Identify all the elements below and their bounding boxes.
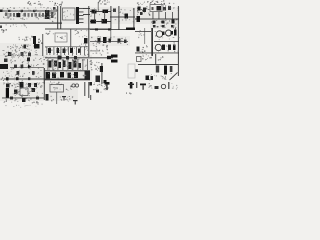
wire rail R13 [45, 57, 113, 58]
capacitor C107 [8, 52, 12, 56]
elec capacitor C121 [74, 72, 78, 78]
mid-right row specks [97, 41, 98, 44]
wire secondary rail mid [83, 14, 90, 15]
capacitor C214 [70, 48, 73, 53]
diode D201 [92, 10, 97, 14]
rail blob 1 [6, 77, 9, 80]
cap row specks [69, 57, 70, 60]
resistor R101 area specks [36, 10, 37, 11]
wire vertical V12 [44, 84, 45, 100]
resistor R210 bar [164, 66, 167, 75]
wire flyback bus [151, 28, 153, 56]
top-right specks [170, 7, 171, 10]
wire rail R14 [45, 70, 90, 71]
wire vertical bus A [88, 6, 89, 57]
wire vertical V at 44 [44, 68, 45, 84]
resistor R213 [151, 76, 154, 80]
resistor R104 [35, 13, 38, 17]
T102 tap arrow 4 [79, 18, 84, 21]
wire rail R15 [45, 79, 90, 80]
ground sym GND1 [62, 96, 66, 97]
resistor R105 [24, 45, 27, 49]
diode D205 [109, 39, 112, 43]
wire drop V110 [109, 29, 112, 40]
fuse F201 cluster [142, 9, 144, 12]
T102 tap arrow 2 [79, 11, 84, 14]
capacitor C116 [63, 61, 66, 68]
label 1 mark [90, 95, 91, 100]
connector J101 circles [72, 84, 75, 87]
transistor Q102 blob [96, 76, 101, 83]
capacitor C103 [24, 13, 27, 17]
plus marks [67, 89, 70, 92]
capacitor C124 [14, 90, 18, 95]
op-amp U101 box [63, 8, 76, 20]
dark mark y72 [32, 71, 35, 75]
wire rect row1 [90, 11, 111, 12]
relay feed wire [152, 12, 155, 19]
inductor L203 [113, 9, 116, 13]
scan haze right bank [150, 19, 178, 29]
bottom right text [151, 85, 152, 88]
bottom far specks [26, 104, 27, 107]
resistor R216 [137, 47, 140, 52]
row specks y72 [7, 70, 8, 73]
node dot below [104, 80, 107, 83]
wire hv rail [135, 19, 179, 20]
bottom row2 specks [21, 96, 23, 97]
capacitor C112 [74, 56, 77, 60]
wire stub y50 [90, 50, 100, 53]
resistor R107 [28, 83, 31, 87]
transformer T103 bar [6, 88, 9, 98]
transformer T101 primary line [57, 6, 58, 29]
relay feed wire 2 [158, 12, 161, 19]
below-rail specks [22, 79, 23, 82]
wire right edge bus [178, 6, 179, 76]
wire top rail [2, 11, 57, 12]
rail bump 3 [33, 10, 36, 12]
T102 tap arrow 3 [79, 14, 84, 17]
connector circle [161, 84, 165, 88]
lower right specks [163, 76, 164, 79]
label right of V11 [162, 55, 163, 58]
relay contact blob [157, 6, 162, 11]
capacitor C127 [46, 94, 49, 101]
node left edge lower [0, 26, 2, 29]
capacitor C204 [162, 25, 165, 28]
capacitor C208 [168, 6, 171, 10]
transistor Q101 bar [33, 36, 36, 44]
capacitor C104 [31, 13, 33, 17]
node left terminal [0, 10, 3, 13]
diode D104 [27, 58, 30, 62]
bridge box D107 [20, 88, 28, 96]
scan haze top band [0, 7, 180, 24]
diode D206 [168, 45, 171, 51]
label F201 text [147, 0, 149, 3]
capacitor C202 [137, 16, 141, 22]
U201 label 1327 [60, 36, 61, 39]
T102 tap arrow 5 [79, 21, 84, 24]
transformer L101 core [16, 13, 20, 17]
wire drop from K101 [55, 92, 58, 104]
hatched box R209 [156, 66, 159, 73]
lower mid specks [36, 54, 37, 55]
IC box U201 [55, 33, 67, 42]
wire rail into choke [110, 17, 135, 18]
row specks y64 [32, 66, 34, 69]
wire mid rail [45, 29, 111, 30]
label TP text [26, 38, 28, 41]
capacitor C123 [34, 83, 37, 87]
resistor R208 [173, 45, 176, 51]
resistor R211 [170, 66, 173, 72]
wire wavy rail [135, 52, 179, 55]
capacitor C114 [54, 61, 57, 67]
elec capacitor C118 [52, 73, 56, 79]
label top text 3 [97, 2, 100, 3]
wire vertical bus C [118, 6, 119, 30]
rail dash 2 [108, 28, 111, 30]
Q203 junction [171, 31, 174, 35]
arrowhead on R13 [107, 56, 111, 59]
capacitor C113 [49, 61, 52, 68]
resistor R206 [118, 39, 121, 43]
tee symbol far right [140, 84, 146, 86]
K101 inner label [54, 88, 57, 89]
U101 pin marks [65, 19, 68, 20]
bottom far right specks [172, 85, 175, 88]
rail blob b2 [36, 97, 39, 100]
elec capacitor C117 [46, 72, 51, 79]
component row strokes y47 [46, 47, 49, 55]
capacitor C122 [6, 84, 10, 88]
resistor R207 [174, 30, 177, 36]
bridge rectifier D102 cluster [45, 10, 50, 19]
capacitor C215 [78, 49, 81, 54]
transistor Q203 [166, 30, 172, 36]
transformer T104 tee [105, 82, 110, 85]
rail dash 1 [95, 28, 98, 30]
capacitor C115 [59, 62, 62, 68]
row y47 specks [66, 48, 67, 51]
elec capacitor C120 [68, 73, 72, 79]
ground sym GND2 [73, 100, 78, 101]
resistor R205 [98, 38, 101, 43]
diode D108 arrow [28, 65, 32, 69]
small text [125, 92, 128, 95]
wire vertical bus D [133, 8, 134, 30]
transistor Q204 [155, 44, 161, 50]
capacitor C211 [48, 48, 51, 53]
relay feed wire 3 [164, 12, 167, 19]
wire vertical V13 [88, 82, 89, 98]
under-rail specks [25, 25, 26, 26]
resistor R204 [172, 20, 175, 24]
capacitor C205 [171, 25, 174, 28]
bottom row3 specks [30, 99, 31, 100]
rail bump 1 [8, 10, 11, 12]
Q204 junction [162, 45, 165, 51]
wire lower rail [0, 23, 62, 24]
bridge upper mark [53, 7, 56, 10]
choke L202 bar2 [111, 60, 118, 63]
T102 tap arrow 1 [79, 7, 84, 10]
capacitor C210 [84, 38, 88, 44]
wire stub specks [49, 30, 51, 33]
label near battery [142, 56, 145, 57]
label left col text [89, 61, 92, 62]
capacitor C111 [66, 56, 69, 60]
wire rect row2 [90, 21, 111, 22]
diode D207 [140, 12, 143, 15]
bottom row1 specks [29, 87, 30, 88]
capacitor C203 [153, 25, 156, 28]
regulator cluster 2 [161, 25, 162, 26]
cap bank specks [66, 73, 69, 74]
wire connector Vb [103, 11, 106, 21]
bottom mid specks [59, 96, 62, 97]
capacitor C109 [17, 71, 20, 75]
label top-left text [29, 3, 30, 6]
capacitor C110 [58, 56, 62, 60]
pin mark 1 [136, 82, 137, 88]
scan haze lower-mid band [0, 55, 92, 81]
transformer T102 winding bar [76, 7, 79, 24]
label left edge 2-8 [0, 79, 2, 80]
label top text 2 [60, 4, 63, 7]
capacitor C219 [79, 63, 82, 68]
transistor Q202 [156, 31, 162, 37]
capacitor C108 [4, 59, 8, 63]
relay pin mark [152, 7, 154, 10]
resistor R212 [146, 76, 150, 81]
resistor R202 [153, 21, 156, 24]
wire rail R10 [135, 30, 151, 33]
label row y54 [13, 56, 14, 59]
relay box K201 [150, 5, 162, 12]
dark mass right edge [85, 71, 91, 81]
capacitor C101 [5, 13, 8, 17]
battery B201 symbol [137, 57, 142, 62]
wire label drop [97, 2, 100, 11]
transformer T101 core line [60, 6, 61, 29]
wire rail R11 [154, 40, 179, 43]
diode D203 [91, 20, 97, 24]
resistor R110 bar [100, 66, 103, 72]
capacitor C102 [10, 13, 12, 17]
left marks [106, 46, 109, 47]
rail blob 2 [16, 77, 19, 80]
capacitor C125 [32, 88, 36, 92]
Q101 emitter marks [37, 41, 40, 44]
capacitor C207 [163, 7, 166, 11]
resistor R215 marks [79, 45, 82, 46]
cluster specks right of box [81, 29, 82, 32]
choke specks [124, 13, 125, 16]
inductor L201 [125, 14, 129, 19]
wire bottom-left rail [4, 79, 90, 80]
wire vertical bus B [110, 6, 111, 30]
resistor R109 [28, 53, 31, 57]
wire vertical V14 [84, 82, 85, 96]
capacitor C105 [39, 13, 41, 17]
bridge specks [49, 10, 50, 13]
capacitor C212 [57, 48, 60, 53]
diode D103 [34, 44, 40, 49]
flyback left specks [140, 33, 141, 36]
choke L202 bar1 [111, 55, 118, 58]
tee symbol right [130, 82, 133, 89]
wire rail y67 [10, 66, 44, 69]
resistor R201 [138, 7, 141, 11]
diode D101 [42, 13, 44, 17]
label mid-left small [2, 29, 5, 32]
capacitor C213 [63, 49, 66, 54]
wire vertical V9 [41, 34, 44, 56]
capacitor C106 [51, 12, 54, 18]
switch S201 diagonal [170, 73, 178, 81]
capacitor C201 [143, 8, 146, 13]
mid band specks [72, 69, 73, 70]
row specks y58 [34, 58, 37, 59]
blob y65 [21, 65, 24, 69]
wire mid rail 2 [90, 28, 126, 31]
comp strokes row [47, 59, 50, 70]
diode D204 [102, 19, 108, 24]
capacitor C217 [69, 62, 72, 69]
paper background [0, 0, 180, 109]
capacitor C218 [74, 61, 77, 68]
corner mark [90, 82, 93, 86]
label top-right text [152, 0, 155, 2]
relay feed wire 4 [171, 12, 174, 19]
capacitor C126 [22, 98, 26, 102]
rail blob 3 [28, 77, 30, 80]
wire rail R16 [138, 64, 178, 65]
right bank specks [177, 50, 179, 53]
regulator cluster 1 [153, 25, 154, 26]
capacitor C206 [124, 40, 127, 44]
wire secondary rail upper [83, 8, 90, 9]
diode D106 [20, 82, 24, 88]
rect row specks [98, 14, 101, 15]
diode D202 [103, 10, 109, 14]
resistor R103 [28, 13, 30, 17]
rail bump 2 [21, 10, 24, 12]
pin mark 2 [168, 82, 169, 89]
transistor Q201 [103, 37, 107, 43]
resistor R106 [14, 65, 17, 69]
wire vertical V10 [101, 63, 102, 84]
rail blob b1 [10, 97, 13, 100]
scan haze mid-right rows [90, 36, 130, 46]
small blob [96, 90, 99, 93]
wire row rail [90, 40, 128, 43]
wire thin bus left of flyback [143, 28, 146, 44]
resistor R102 [13, 13, 15, 17]
resistor R108 [21, 52, 24, 56]
resistor R214 [155, 86, 159, 89]
wire light rail y46 [45, 45, 88, 48]
label above box [51, 82, 54, 85]
label mid-right text [144, 51, 147, 52]
wire vertical V15 [69, 29, 72, 49]
mid row specks [27, 48, 28, 51]
elec capacitor C119 [60, 72, 64, 78]
component band specks [44, 17, 45, 20]
resistor R203 [162, 21, 165, 24]
scan haze bottom band [0, 82, 78, 101]
node dot x136 [135, 69, 138, 72]
power blob dense [0, 64, 8, 69]
bottom text cluster [101, 81, 104, 84]
thick bar top [126, 28, 135, 31]
Q202 junction [162, 32, 165, 36]
bottom label specks left [12, 85, 13, 86]
regulator cluster 3 [176, 18, 177, 21]
scan haze mid-left [0, 43, 44, 56]
faint box right [128, 64, 135, 78]
wire connector Va [93, 11, 96, 21]
wire bottom rail [2, 97, 44, 100]
wire vertical V11 [155, 54, 156, 65]
relay box K101 [50, 85, 64, 93]
